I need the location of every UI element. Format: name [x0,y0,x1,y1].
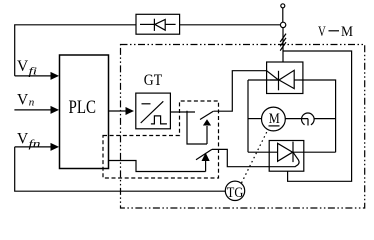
outer dash-dot enclosure (drive system boundary) [121,45,365,209]
gate trigger unit GT box [136,93,171,129]
wire: Vfi input into PLC [15,72,59,80]
svg-text:V: V [318,24,326,40]
PLC controller box [60,55,109,169]
inner dashed box (logic switching unit) [103,101,219,178]
diode symbol (pointing left) [154,19,165,31]
wire: Vfn input into PLC [15,143,59,151]
GT symbol: diagonal [141,101,164,123]
wire: motor to current transformer [285,119,308,126]
svg-text:PLC: PLC [69,98,97,118]
wire: top feedback line from left vertical to diode box [15,25,136,76]
three-phase slash marks on AC line [280,34,286,51]
label Vfn [17,131,41,151]
wire: GT output [170,111,207,144]
wire: V2 cathode to right [293,151,336,153]
tachogenerator TG circle [225,181,244,201]
left rail wire [247,80,249,152]
thyristor V2 symbol [278,142,299,167]
GT symbol: level dash [142,103,151,105]
wire: PLC output 1 to GT [109,107,135,115]
svg-text:V: V [17,131,29,148]
current transformer circle on motor rail [302,113,315,125]
thyristor module V2 box (reverse group) [269,141,304,172]
firing pulse arrow 2 (to reverse thyristor gate) [196,149,212,171]
wire: current transformer to V1/V2 junction [314,118,336,120]
AC supply terminal (lower circle) [280,22,285,27]
wire: left rail to V1 [248,79,279,81]
label GT [144,72,162,89]
svg-text:V: V [17,58,29,75]
svg-text:n: n [29,97,35,109]
firing pulse arrow 1 (to forward thyristor gate) [200,111,213,144]
label Vn [17,92,35,109]
wire: diode box to AC terminal [180,24,281,26]
label Vfi [17,58,37,78]
wire: left rail to V2 [248,151,278,153]
wire: firing path to thyristor V2 gate [212,149,269,166]
svg-text:TG: TG [227,184,244,201]
dotted shaft coupling TG to motor [242,132,268,184]
wire: V2 gate lead inside box [269,166,295,168]
motor M circle [262,107,286,131]
wire: PLC output 2 [109,161,206,172]
wire: motor rail left [248,118,262,120]
label V-M [318,24,353,40]
wire: Vn input into PLC [14,106,59,114]
svg-text:GT: GT [144,72,162,89]
svg-text:V: V [17,92,29,109]
diode box VD (feedback isolation) [136,14,180,34]
wire: AC line down to thyristor box V1 [282,28,284,62]
svg-text:M: M [341,24,353,40]
wire: firing path to thyristor V1 gate [214,71,267,112]
wire: AC branch to right rail [283,51,352,181]
svg-text:fn: fn [29,138,42,150]
GT symbol: pulse waveform [151,116,167,124]
AC supply terminal (upper small circle) [281,4,285,22]
svg-text:M: M [269,111,280,127]
wire: V1 anode to motor rail [299,80,336,152]
thyristor module V1 box (forward group) [267,62,303,94]
wire: speed feedback from TG to Vfn [15,147,226,191]
thyristor V1 symbol [267,70,299,90]
